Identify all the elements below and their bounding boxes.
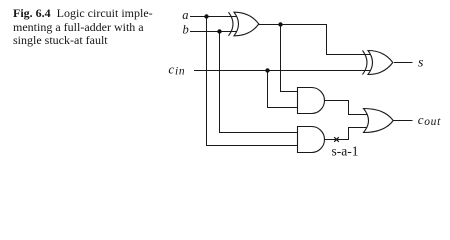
svg-text:c: c [418, 112, 424, 127]
wire a down to AND2 lower input [207, 17, 300, 146]
junction dot on c_in [265, 68, 269, 72]
svg-text:s: s [418, 56, 424, 71]
svg-text:out: out [424, 116, 441, 128]
wire XOR2 output to s [394, 62, 413, 64]
svg-text:s-a-1: s-a-1 [332, 144, 359, 159]
wire b down to AND2 upper input [220, 32, 300, 133]
wire input a [190, 16, 237, 18]
svg-text:a: a [182, 8, 188, 22]
wire c_in tap down to AND1 lower input [268, 71, 300, 108]
xor gate U1 body [234, 12, 259, 36]
wire AND1 output to OR upper input [325, 101, 369, 115]
xor gate U3 (s output) back arc [363, 51, 368, 75]
xor gate U1 (a xor b) back arc [229, 12, 234, 36]
or gate U5 (c_out) [364, 109, 394, 133]
xor gate U3 body [368, 51, 393, 75]
junction dot on XOR1 output [278, 22, 282, 26]
wire XOR1 output tap down to AND1 upper input [281, 25, 300, 92]
junction dot on a [204, 14, 208, 18]
stuck-at fault X mark [334, 137, 339, 142]
and gate U2 ((a xor b)·c_in) [298, 88, 325, 114]
wire AND2 output to OR lower input (faulty line) [324, 128, 369, 140]
caption: Fig. 6.4 Logic circuit implementing a full-adder with a single stuck-at fault [13, 7, 183, 48]
svg-text:c: c [168, 61, 174, 76]
junction dot on b [217, 29, 221, 33]
wire OR output to c_out [394, 120, 413, 122]
and gate U4 (a·b) [298, 127, 325, 153]
wire input b [190, 31, 237, 33]
wire XOR1 output to XOR2 upper input [259, 25, 373, 55]
svg-text:b: b [183, 22, 189, 36]
svg-text:in: in [175, 65, 185, 77]
wire input c_in to XOR2 lower input [194, 70, 372, 72]
